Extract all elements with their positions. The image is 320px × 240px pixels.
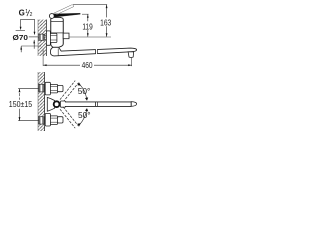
union collar bottom (plan view): [57, 117, 63, 123]
svg-text:G: G: [19, 9, 25, 18]
svg-text:Ø70: Ø70: [13, 33, 29, 42]
spout tube joint (side view): [96, 49, 98, 55]
escutcheon (side view): [46, 31, 50, 45]
shared reference line at inlet axis: [69, 36, 111, 38]
in-wall fitting (side view): [39, 34, 47, 40]
swivel range dashed outline up (plan view): [60, 81, 78, 102]
dimension 460: [43, 49, 132, 70]
wall hatch (plan view): [38, 72, 45, 131]
escutcheon bottom (plan view): [45, 113, 50, 126]
G 1/2 label: [19, 9, 33, 19]
swivel arc up (plan view): [80, 85, 87, 99]
swivel pivot ring (plan view): [54, 101, 60, 107]
dimension 163: [73, 5, 111, 37]
union nut top (plan view): [50, 84, 57, 93]
spout tube (plan view): [65, 102, 131, 107]
G 1/2 leader lines: [21, 19, 35, 32]
diameter 70 dimension ticks and arrows: [16, 30, 41, 52]
spout collar (plan view): [60, 101, 65, 107]
union nut (side view): [50, 33, 57, 42]
escutcheon top (plan view): [45, 82, 50, 95]
union nut bottom (plan view): [50, 116, 57, 125]
svg-text:150±15: 150±15: [9, 99, 33, 109]
svg-text:460: 460: [82, 60, 93, 70]
mixer body trapezoid (plan view): [47, 97, 54, 111]
diameter 70 leader: [29, 36, 38, 38]
lever handle solid (side view): [53, 13, 80, 17]
svg-text:50°: 50°: [78, 110, 91, 120]
outlet box on body (side view): [63, 33, 69, 39]
in-wall fitting top (plan view): [39, 84, 45, 92]
svg-text:163: 163: [100, 18, 111, 28]
spout elbow and tube (side view): [50, 47, 136, 56]
in-wall fitting bottom (plan view): [39, 117, 45, 124]
lever pivot ball (side view): [49, 14, 54, 19]
union collar top (plan view): [57, 85, 63, 91]
svg-text:2: 2: [30, 12, 33, 18]
dimension 119: [82, 14, 93, 37]
svg-text:50°: 50°: [78, 86, 91, 96]
dimension 150±15 (plan view): [9, 89, 39, 121]
mixer body (side view): [51, 17, 63, 47]
spout tip cap (plan view): [131, 102, 136, 107]
wall hatch (side view): [38, 20, 46, 57]
svg-text:119: 119: [82, 21, 93, 31]
lever raised position thin outline (side view): [53, 5, 73, 15]
aerator at spout tip (side view): [128, 52, 134, 58]
swivel range dashed outline down (plan view): [60, 107, 78, 128]
swivel arc down (plan view): [80, 110, 87, 124]
spout elbow joint line (side view): [57, 48, 59, 55]
